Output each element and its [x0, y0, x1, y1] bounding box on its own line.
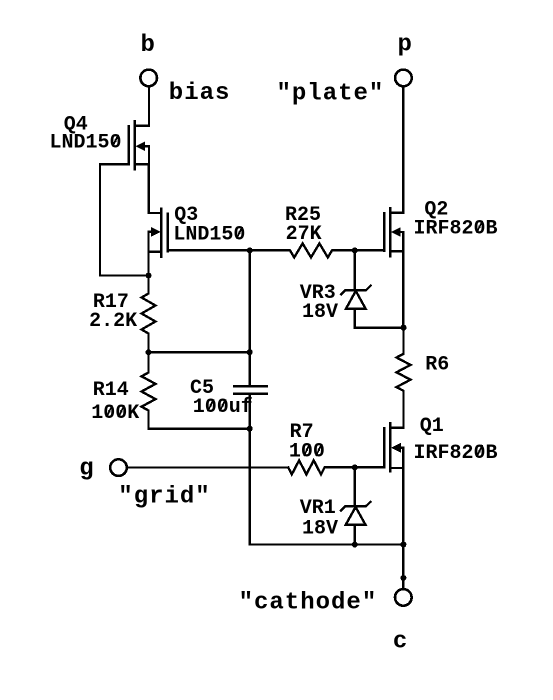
node junction VR3 top [352, 247, 358, 253]
svg-text:18V: 18V [302, 301, 338, 324]
node pin dot above terminal c [400, 575, 406, 581]
wire Q4 source to Q3 drain [149, 164, 162, 213]
svg-text:R6: R6 [425, 354, 449, 377]
resistor R25 [250, 243, 385, 257]
svg-text:27K: 27K [286, 223, 322, 246]
wire p to Q2 drain [390, 87, 403, 213]
resistor R6 [390, 328, 410, 428]
wire Q2 source to R6 [402, 251, 404, 327]
svg-text:100uf: 100uf [193, 396, 253, 419]
node junction Q4 gate / Q3 source [146, 273, 152, 279]
terminal p [395, 70, 412, 87]
node junction C5 bottom [247, 426, 253, 432]
svg-text:IRF820B: IRF820B [414, 442, 498, 465]
svg-text:"plate": "plate" [277, 80, 385, 107]
node junction Q3 gate wire [247, 247, 253, 253]
wire node down to C5 [248, 250, 250, 385]
zener diode VR3 [341, 250, 403, 327]
wire C5 bottom down and right to cathode rail [250, 395, 404, 545]
wire Q1 source down to cathode rail [402, 468, 404, 545]
zener diode VR1 [341, 467, 370, 544]
node junction R17/R14 [146, 349, 152, 355]
svg-text:VR1: VR1 [300, 497, 336, 520]
transistor Q2 [384, 208, 403, 256]
svg-text:"cathode": "cathode" [239, 590, 378, 617]
resistor R14 [142, 352, 156, 429]
svg-text:R14: R14 [93, 379, 129, 402]
node junction VR3 bottom / R6 top [401, 325, 407, 331]
wire R14 bottom to C5 bottom [149, 428, 250, 430]
svg-text:b: b [141, 32, 156, 59]
node junction mid row [247, 349, 253, 355]
slashed zero marks [106, 135, 482, 457]
wire rail to terminal c [402, 545, 404, 589]
wire R17 bottom row [149, 351, 250, 353]
resistor R17 [142, 276, 156, 353]
svg-text:c: c [393, 629, 408, 656]
wire g to R7 [127, 466, 288, 468]
svg-text:p: p [398, 32, 413, 59]
wire Q4 gate feedback loop [100, 164, 149, 275]
capacitor C5 [234, 386, 267, 393]
svg-text:g: g [79, 456, 94, 483]
svg-text:bias: bias [169, 80, 231, 107]
terminal g [110, 459, 127, 476]
wire b to Q4 drain [135, 87, 149, 126]
svg-text:LND150: LND150 [173, 224, 245, 247]
node junction cathode rail right [400, 542, 406, 548]
svg-text:100K: 100K [91, 402, 139, 425]
node junction VR1 bottom [352, 542, 358, 548]
svg-text:IRF820B: IRF820B [414, 218, 498, 241]
terminal b [140, 70, 157, 87]
transistor Q3 [149, 209, 168, 257]
node junction VR1 top [352, 464, 358, 470]
svg-text:LND150: LND150 [50, 131, 122, 154]
terminal c [395, 589, 412, 606]
wire Q3 gate to node [168, 249, 250, 251]
svg-text:"grid": "grid" [118, 484, 210, 511]
transistor Q1 [384, 423, 403, 471]
svg-text:2.2K: 2.2K [89, 310, 137, 333]
svg-text:100: 100 [289, 441, 325, 464]
transistor Q4 [129, 121, 149, 169]
svg-text:18V: 18V [302, 518, 338, 541]
svg-text:Q1: Q1 [420, 415, 444, 438]
resistor R7 [288, 460, 384, 474]
wire Q3 source down to R17 [147, 252, 149, 276]
